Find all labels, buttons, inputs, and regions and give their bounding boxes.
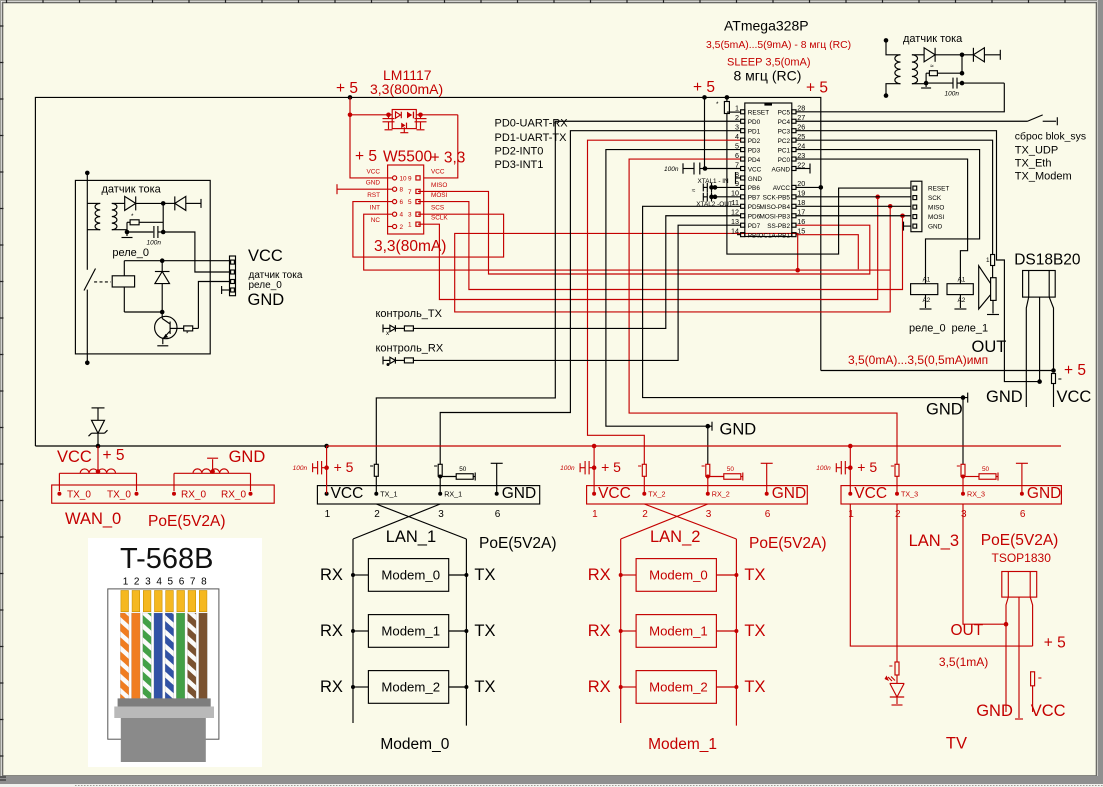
- svg-text:+ 5: + 5: [355, 148, 377, 165]
- svg-text:3: 3: [961, 509, 967, 520]
- svg-text:RX: RX: [588, 622, 611, 640]
- pin X2 GND: [913, 224, 917, 228]
- node SCLK ISP SCK junction: [875, 195, 880, 200]
- connector X1 sensor 4pin: [230, 256, 236, 296]
- svg-text:PC1: PC1: [778, 147, 791, 154]
- svg-text:3: 3: [438, 509, 444, 520]
- wire LAN_1 crossover tx: [376, 504, 466, 539]
- led D7 ir: [896, 675, 898, 683]
- capacitor C3 output cap: [420, 115, 422, 118]
- wire sensor2 to pin28: [962, 82, 1004, 84]
- wire PD0 to TX1: [376, 121, 740, 464]
- svg-text:Modem_1: Modem_1: [648, 736, 717, 753]
- pin W5500 3 SCS: [416, 212, 420, 216]
- pin U1 9 PB6: [741, 185, 745, 189]
- svg-text:100n: 100n: [147, 240, 162, 247]
- svg-text:16: 16: [797, 217, 805, 226]
- ground LAN_1 pin6 stub: [491, 462, 503, 464]
- connector WAN_0 box: [52, 485, 275, 503]
- svg-text:VCC: VCC: [331, 485, 364, 502]
- ground X1 pin4 stub: [222, 289, 230, 291]
- svg-text:VCC: VCC: [748, 166, 762, 173]
- wire d4 to node: [935, 54, 962, 56]
- svg-text:MOSI: MOSI: [431, 192, 448, 199]
- svg-text:+ 3,3: + 3,3: [431, 150, 466, 167]
- wire modem bus right lan1: [465, 539, 467, 726]
- svg-text:+ 5: + 5: [1044, 635, 1066, 652]
- node bus lan2 vcc: [592, 444, 597, 449]
- wire tsop leg2 gnd: [1018, 597, 1020, 718]
- svg-text:6: 6: [765, 509, 771, 520]
- svg-text:TX_0: TX_0: [67, 490, 91, 501]
- svg-text:VCC: VCC: [1057, 388, 1092, 406]
- block Modem_0 lan2: [636, 559, 716, 592]
- svg-text:SS-PB2: SS-PB2: [767, 223, 790, 230]
- svg-text:1: 1: [848, 509, 854, 520]
- svg-text:=: =: [370, 463, 374, 470]
- node bus lan3 vcc: [848, 444, 853, 449]
- pin U1 4 PD2: [741, 138, 745, 142]
- wire LM1117 output: [416, 114, 458, 116]
- wire PC4 pin27 to switch: [796, 120, 1028, 122]
- svg-text:GND: GND: [986, 388, 1023, 406]
- wire C1 to node2: [158, 231, 163, 233]
- wire secondary top lead: [112, 202, 125, 204]
- wire d5 out: [984, 54, 1000, 56]
- pin U1 17 MOSI-PB3: [792, 214, 796, 218]
- svg-text:+ 5: + 5: [857, 459, 877, 475]
- pin X2 RESET: [913, 186, 917, 190]
- svg-text:RX_3: RX_3: [967, 490, 985, 499]
- node +5 rail to LM1117: [348, 95, 353, 100]
- terminal bar d5: [999, 50, 1001, 60]
- chip U3 W5500 body: [388, 165, 424, 234]
- svg-text:PD7: PD7: [748, 223, 761, 230]
- svg-text:VCC: VCC: [854, 485, 887, 502]
- wire node to D5: [962, 54, 973, 56]
- pin W5500 9 VCC: [416, 176, 420, 180]
- pin U1 27 PC4: [792, 119, 796, 123]
- svg-text:GND: GND: [248, 291, 285, 309]
- wire PD6 pin12 to контроль_TX: [413, 216, 741, 329]
- pin W5500 10 VCC: [393, 176, 397, 180]
- wire r8 left down: [925, 73, 927, 83]
- wire W5500 INT east bus: [364, 214, 891, 270]
- svg-text:MISO-PB4: MISO-PB4: [759, 204, 790, 211]
- node RX2 junction: [706, 424, 711, 429]
- regulator U2 LM1117 body: [392, 110, 416, 129]
- svg-text:TX: TX: [744, 678, 765, 696]
- svg-text:+ 5: + 5: [693, 79, 715, 96]
- pin W5500 8 GND: [393, 187, 397, 191]
- svg-text:PD0: PD0: [748, 119, 761, 126]
- capacitor C7 sensor2: [952, 78, 954, 89]
- switch blade sensor mains: [84, 269, 96, 291]
- svg-text:SCK-PB5: SCK-PB5: [763, 195, 791, 202]
- ground K3 A2: [959, 295, 961, 308]
- pin U1 16 SS-PB2: [792, 223, 796, 227]
- ground LAN_2 pin6 stub: [761, 462, 773, 464]
- sensor U4 DS18B20 body: [1023, 271, 1056, 298]
- svg-text:MOSI-PB3: MOSI-PB3: [759, 214, 790, 221]
- svg-text:реле_0: реле_0: [112, 247, 149, 259]
- svg-text:7: 7: [408, 189, 412, 196]
- node LAN_1 rx term: [438, 475, 442, 479]
- wire sec2 top: [912, 54, 924, 56]
- diode D5 reversed: [972, 48, 974, 62]
- switch SW1 сброс blok_sys: [1028, 115, 1043, 121]
- svg-text:GND: GND: [976, 702, 1013, 720]
- wire DS18B20 leg2 DQ: [1039, 297, 1041, 382]
- svg-text:W5500: W5500: [383, 149, 432, 166]
- wire pin14 PB0 stub: [737, 234, 741, 236]
- svg-text:A1: A1: [958, 277, 966, 284]
- svg-text:A2: A2: [958, 297, 966, 304]
- wire rect2 node down: [961, 55, 963, 73]
- wire W5500 SCLK to ISP SCK net: [418, 197, 878, 300]
- pin U1 7 VCC: [741, 167, 745, 171]
- svg-text:4: 4: [400, 212, 404, 219]
- wire SCK pin19 to ISP: [796, 196, 911, 198]
- svg-text:INT: INT: [370, 205, 380, 212]
- pin U1 19 SCK-PB5: [792, 195, 796, 199]
- wire PC2 pin25 to speaker: [796, 140, 993, 254]
- node sensor top terminal: [85, 171, 90, 176]
- node collector: [160, 310, 165, 315]
- svg-text:+ 5: + 5: [806, 80, 828, 97]
- node relay diode top: [160, 258, 165, 263]
- wire PC3 pin26 to DS18B20 DQ: [796, 131, 1040, 382]
- svg-text:GND: GND: [1027, 485, 1061, 502]
- wire sensor2 out line: [926, 82, 953, 84]
- svg-text:DS18B20: DS18B20: [1014, 252, 1081, 269]
- wire PC5 pin28 to sensor2: [796, 83, 1004, 112]
- pin WAN_0 TX_0: [57, 492, 61, 496]
- svg-text:SCLK: SCLK: [431, 215, 448, 222]
- svg-text:≈: ≈: [930, 63, 934, 70]
- capacitor C5 xtal1: [715, 186, 741, 188]
- resistor LAN_2 rx terminator: [708, 476, 724, 478]
- svg-text:50: 50: [982, 466, 990, 473]
- svg-text:VCC: VCC: [598, 485, 631, 502]
- svg-text:3,3(80mA): 3,3(80mA): [374, 238, 446, 255]
- wire LAN_1 crossover rx: [353, 504, 440, 539]
- terminal bar rx3 wire: [967, 393, 969, 403]
- pin WAN_0 TX_0: [135, 492, 139, 496]
- svg-text:1: 1: [592, 509, 598, 520]
- wire LM1117 input: [350, 114, 392, 116]
- wire LAN_2 crossover rx: [621, 504, 708, 539]
- pin U1 20 AVCC: [792, 185, 796, 189]
- wire +5 bus red part: [327, 445, 1061, 447]
- resistor LAN_2 tx: [642, 464, 646, 476]
- svg-text:реле_0: реле_0: [249, 280, 283, 291]
- resistor R4 speaker: [991, 255, 995, 266]
- svg-text:3: 3: [145, 577, 151, 588]
- svg-text:TX: TX: [474, 678, 495, 696]
- wire W5500 MOSI to ISP MOSI net: [418, 202, 903, 290]
- svg-text:сброс blok_sys: сброс blok_sys: [1015, 131, 1086, 143]
- wire D2 to terminal: [186, 202, 201, 204]
- pin U1 11 PD5: [741, 204, 745, 208]
- wire VCC rail relay row: [124, 260, 229, 262]
- svg-text:датчик тока: датчик тока: [102, 184, 162, 196]
- image T-568B wiring diagram: [88, 538, 262, 767]
- wire modem bus left lan2: [620, 539, 622, 723]
- svg-text:+ 5: + 5: [103, 447, 125, 464]
- wire sensor left vertical: [86, 173, 88, 270]
- svg-text:TX: TX: [744, 622, 765, 640]
- svg-text:6: 6: [495, 509, 501, 520]
- svg-text:GND: GND: [926, 401, 963, 419]
- svg-text:Modem_0: Modem_0: [649, 568, 708, 583]
- svg-text:RX_2: RX_2: [712, 490, 730, 499]
- svg-text:A2: A2: [923, 297, 931, 304]
- svg-text:реле_1: реле_1: [952, 323, 989, 335]
- svg-text:8 мгц (RC): 8 мгц (RC): [734, 68, 802, 84]
- resistor LAN_1 rx terminator: [440, 476, 456, 478]
- svg-text:8: 8: [400, 187, 404, 194]
- svg-text:TX_Modem: TX_Modem: [1015, 171, 1072, 183]
- svg-text:SCK: SCK: [928, 195, 942, 202]
- svg-text:TX_3: TX_3: [901, 490, 918, 499]
- node ISP MISO junction: [888, 204, 893, 209]
- pin U1 5 PD3: [741, 148, 745, 152]
- diode D2 reversed: [174, 196, 176, 210]
- ground W5500 GND pin8: [337, 188, 393, 190]
- resistor LAN_2 rx: [706, 464, 710, 476]
- transformer TR2 secondary: [912, 55, 918, 84]
- wire modem bus right lan2: [735, 539, 737, 726]
- svg-text:RX_0: RX_0: [221, 490, 246, 501]
- resistor R5 ds vcc: [1052, 374, 1056, 384]
- resistor R8 sensor2: [937, 72, 962, 74]
- svg-text:6: 6: [400, 199, 404, 206]
- current sensor block датчик тока box: [75, 180, 210, 354]
- node rect2 out: [960, 53, 965, 58]
- pin W5500 2 NC: [393, 224, 397, 228]
- transformer TR1 secondary: [112, 203, 117, 229]
- wire wan tx center tap: [97, 446, 99, 473]
- wire +5 to W5500 VCC pin10: [350, 115, 393, 178]
- wire ds vcc lower: [1053, 384, 1055, 408]
- svg-text:100n: 100n: [945, 91, 960, 98]
- pin U1 2 PD0: [741, 119, 745, 123]
- svg-text:5: 5: [168, 577, 174, 588]
- svg-text:RST: RST: [367, 192, 380, 199]
- pin WAN_0 RX_0: [249, 492, 253, 496]
- node rx3 drop: [961, 395, 966, 400]
- block Modem_2 lan2: [636, 671, 716, 704]
- label LAN_1 TX pin: [374, 492, 378, 496]
- svg-text:XTAL1 - IN: XTAL1 - IN: [698, 178, 730, 185]
- svg-text:TV: TV: [946, 735, 967, 753]
- connector LAN_1 box: [317, 486, 539, 504]
- svg-text:2: 2: [374, 509, 380, 520]
- svg-text:PD4: PD4: [748, 157, 761, 164]
- block Modem_0 lan1: [368, 559, 448, 592]
- wire W5500 NC stub: [388, 226, 393, 228]
- svg-text:6: 6: [1020, 509, 1026, 520]
- wire PD7 pin13 to контроль_RX: [413, 225, 741, 360]
- svg-text:100n: 100n: [560, 465, 575, 472]
- pin U1 6 PD4: [741, 157, 745, 161]
- block Modem_1 lan1: [368, 615, 448, 648]
- svg-text:3: 3: [408, 212, 412, 219]
- capacitor C4 100n vcc: [683, 168, 694, 170]
- pin U1 26 PC3: [792, 129, 796, 133]
- svg-text:+ 5: + 5: [601, 459, 621, 475]
- svg-text:RESET: RESET: [928, 186, 949, 193]
- svg-text:PC3: PC3: [778, 129, 791, 136]
- label LAN_3 TX pin: [895, 492, 899, 496]
- svg-text:1: 1: [123, 577, 129, 588]
- svg-text:TX: TX: [744, 566, 765, 584]
- svg-text:TX: TX: [474, 622, 495, 640]
- wire +5 down to pin7: [704, 97, 706, 168]
- svg-text:датчик тока: датчик тока: [249, 270, 303, 281]
- resistor R10 led: [895, 662, 899, 675]
- wire TX_3 to LED: [896, 504, 898, 662]
- svg-text:Modem_1: Modem_1: [381, 624, 440, 639]
- pin U1 23 PC0: [792, 157, 796, 161]
- resistor LAN_3 rx terminator: [963, 476, 979, 478]
- resistor LAN_1 rx: [438, 464, 442, 476]
- svg-text:Modem_0: Modem_0: [381, 568, 440, 583]
- pin U1 18 MISO-PB4: [792, 204, 796, 208]
- ground led: [896, 697, 898, 704]
- svg-text:=: =: [1038, 675, 1042, 682]
- wire PC0 pin23 to rele1: [796, 159, 968, 284]
- node sensor2 bottom: [884, 93, 889, 98]
- relay K1 contact dashed: [94, 281, 111, 283]
- svg-text:PD1-UART-TX: PD1-UART-TX: [495, 132, 568, 144]
- node sensor2 gnd: [924, 81, 929, 86]
- wire base feed from connector pin3: [198, 282, 229, 329]
- wire MISO pin18 to ISP: [796, 205, 911, 207]
- label LAN_1 GND pin: [495, 492, 499, 496]
- svg-text:1: 1: [735, 104, 739, 113]
- wire c7 to out: [957, 82, 962, 84]
- capacitor C2 input cap: [386, 113, 391, 118]
- svg-text:TX_2: TX_2: [648, 490, 665, 499]
- relay K1 coil: [123, 261, 125, 276]
- svg-text:1: 1: [325, 509, 331, 520]
- node sensor2 top: [884, 38, 889, 43]
- wire node vertical R1-C1: [162, 203, 164, 232]
- svg-text:PC4: PC4: [778, 119, 791, 126]
- svg-text:PD2: PD2: [748, 138, 761, 145]
- wire +5 top rail: [35, 97, 820, 446]
- svg-text:8: 8: [201, 577, 207, 588]
- wire +3,3 down to W5500 pin9: [424, 115, 458, 178]
- svg-text:100n: 100n: [816, 465, 831, 472]
- capacitor LAN_2 100n: [589, 467, 594, 469]
- node +5 rail / AVCC junction: [819, 185, 824, 190]
- pin U1 15 OC1A-PB1: [792, 233, 796, 237]
- led контроль_RX indicator: [382, 356, 384, 364]
- wire down to RX2: [707, 426, 709, 464]
- label LAN_3 RX pin: [961, 492, 965, 496]
- diode D1 rectifier: [125, 196, 136, 210]
- pin U1 12 PD6: [741, 214, 745, 218]
- resistor R1 sensor filter: [127, 221, 130, 223]
- svg-text:=: =: [701, 463, 705, 470]
- svg-text:=: =: [638, 463, 642, 470]
- pin X2 MOSI: [913, 215, 917, 219]
- ground tick sensor filter: [126, 232, 128, 236]
- pin W5500 4 INT: [393, 212, 397, 216]
- label LAN_3 VCC pin: [848, 492, 852, 496]
- wire D1 to node: [136, 202, 164, 204]
- svg-text:PD3-INT1: PD3-INT1: [495, 159, 544, 171]
- wire ISP MISO down-loop: [455, 206, 891, 312]
- svg-text:RX: RX: [588, 566, 611, 584]
- node LAN_2 rx term: [706, 475, 710, 479]
- pin W5500 7 MISO: [416, 189, 420, 193]
- label LAN_2 VCC pin: [592, 492, 596, 496]
- capacitor LAN_3 100n: [845, 467, 850, 469]
- svg-text:ATmega328P: ATmega328P: [724, 18, 809, 34]
- pin U1 14 PB0: [741, 233, 745, 237]
- wire sensor output to connector drop: [163, 232, 229, 272]
- svg-text:TX_UDP: TX_UDP: [1015, 145, 1058, 157]
- wire LAN_2 vcc feed: [593, 446, 595, 494]
- resistor R3 reset pullup: [726, 97, 728, 101]
- wire LM1117 gnd stem: [403, 127, 405, 132]
- relay K2 реле_0 coil: [911, 284, 938, 295]
- pin U1 8 GND: [741, 176, 745, 180]
- block Modem_1 lan2: [636, 615, 716, 648]
- svg-text:Modem_0: Modem_0: [380, 736, 449, 753]
- svg-text:10: 10: [400, 175, 408, 182]
- node rect output: [161, 201, 166, 206]
- transformer T3 wan tx coil: [59, 472, 136, 474]
- pin U1 22 AGND: [792, 167, 796, 171]
- ground K2 A2: [925, 295, 927, 308]
- svg-text:15: 15: [797, 226, 805, 235]
- svg-text:+ 5: + 5: [1064, 362, 1086, 379]
- pin U1 28 PC5: [792, 110, 796, 114]
- svg-text:AVCC: AVCC: [773, 185, 791, 192]
- node pin15 loop joins INT bus: [795, 268, 800, 273]
- label LAN_2 GND pin: [765, 492, 769, 496]
- svg-text:GND: GND: [772, 485, 806, 502]
- svg-text:TX: TX: [474, 566, 495, 584]
- node filter out: [161, 230, 166, 235]
- svg-text:PD0-UART-RX: PD0-UART-RX: [495, 118, 569, 130]
- speaker BZ1: [992, 266, 994, 278]
- svg-text:TX_Eth: TX_Eth: [1015, 158, 1052, 170]
- svg-text:VCC: VCC: [248, 247, 283, 265]
- capacitor C6 xtal2: [715, 196, 741, 198]
- svg-text:VCC: VCC: [1031, 702, 1066, 720]
- node r8 right: [960, 71, 965, 76]
- svg-text:LAN_1: LAN_1: [386, 528, 436, 546]
- wire tsop leg1 out: [1006, 597, 1008, 712]
- wire sec2 bottom: [912, 83, 926, 85]
- wire LAN_1 vcc feed: [326, 446, 328, 494]
- rj45 cable boot: [118, 698, 211, 707]
- ground wan rx center tap: [212, 459, 214, 473]
- resistor LAN_3 rx: [961, 464, 965, 476]
- svg-text:3: 3: [706, 509, 712, 520]
- wire W5500 RST-SCS loop: [353, 202, 504, 258]
- label LAN_2 TX pin: [642, 492, 646, 496]
- svg-text:PD3: PD3: [748, 147, 761, 154]
- connector LAN_2 box: [587, 486, 808, 504]
- svg-text:TSOP1830: TSOP1830: [992, 551, 1052, 565]
